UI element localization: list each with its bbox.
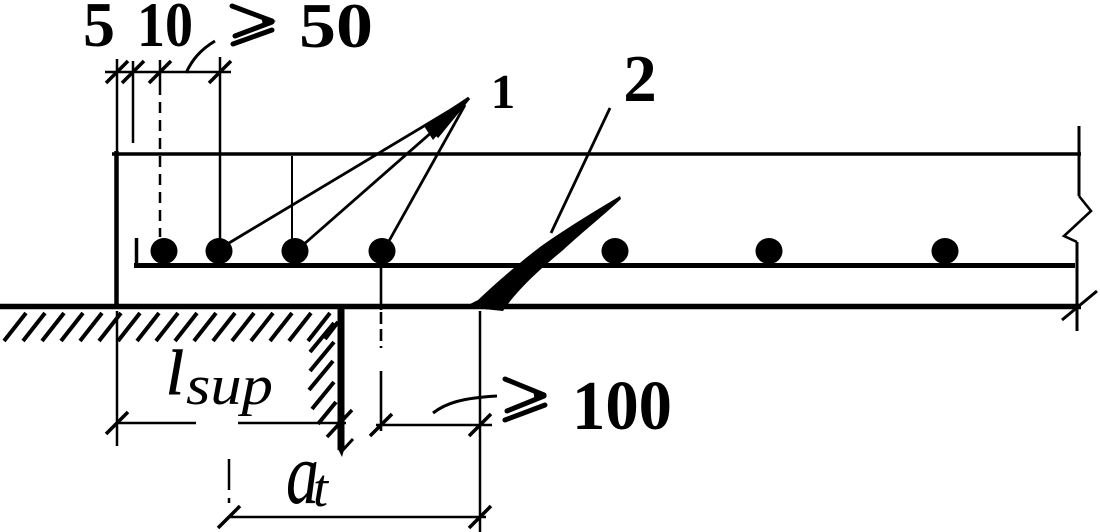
rebar dot 1 xyxy=(151,238,178,264)
rebar dot 2 xyxy=(206,238,233,264)
tick gte100 right xyxy=(469,414,491,436)
rebar dot 7 xyxy=(932,238,959,264)
support centerline dash xyxy=(228,459,231,490)
svg-text:5: 5 xyxy=(83,0,115,60)
slab right edge upper xyxy=(1078,126,1081,196)
leader hook to gte50 xyxy=(186,41,215,73)
gte symbol top xyxy=(232,6,276,44)
slab right edge lower xyxy=(1076,242,1079,331)
leader 1 to dot 4 xyxy=(389,105,465,241)
rebar dot 3 xyxy=(282,238,309,264)
svg-text:100: 100 xyxy=(572,368,672,445)
at dimension line xyxy=(229,516,486,519)
leader 1 to dot 3 xyxy=(303,103,465,245)
top dimension line xyxy=(105,71,231,74)
wall edge (support right face) xyxy=(338,306,345,450)
svg-text:1: 1 xyxy=(491,64,516,119)
support centerline dot xyxy=(228,498,231,503)
svg-text:2: 2 xyxy=(623,42,657,116)
tick at x220 top xyxy=(209,61,231,83)
tick at right xyxy=(469,506,491,528)
bent-up bar (element 2) xyxy=(464,196,621,311)
extension line x292 to dot 3 xyxy=(291,156,293,241)
rebar dot 6 xyxy=(756,238,783,264)
tick at left xyxy=(218,506,240,528)
rebar end hook stub xyxy=(135,238,139,265)
leader hook to gte100 xyxy=(433,396,497,413)
hatching top band xyxy=(4,313,338,341)
leader 1 to dot 2 xyxy=(229,102,464,243)
tick at x133 top xyxy=(122,61,144,83)
lsup extension line left xyxy=(116,311,119,446)
hatching right strip xyxy=(309,323,336,424)
leader 2 line xyxy=(551,108,610,233)
extension x480 from bend point xyxy=(479,311,482,532)
tick lsup right xyxy=(327,410,352,437)
lsup dimension line seg1 xyxy=(117,422,196,425)
tick gte100 left xyxy=(370,414,392,436)
svg-text:10: 10 xyxy=(137,0,193,60)
rebar dot 4 xyxy=(369,238,396,264)
rebar dot 5 xyxy=(602,238,629,264)
tick bottom right corner xyxy=(1062,291,1097,320)
leader 1 arrowhead xyxy=(424,98,469,140)
lsup dimension line seg2 xyxy=(238,422,346,425)
extension line x117 upper xyxy=(116,59,119,152)
extension line x133 xyxy=(132,61,135,143)
extension x381 from dot 4 solid part xyxy=(380,250,383,310)
svg-text:50: 50 xyxy=(299,0,373,61)
extension line x220 to dot 2 xyxy=(219,57,222,239)
break symbol xyxy=(1064,196,1091,242)
extension x381 lower solid part xyxy=(380,371,383,431)
svg-text:l: l xyxy=(166,337,184,408)
tick at x160 top xyxy=(149,61,171,83)
extension x381 dashes below support line xyxy=(380,312,383,348)
svg-text:t: t xyxy=(313,458,330,518)
svg-text:sup: sup xyxy=(186,355,273,417)
gte symbol bottom xyxy=(505,379,547,420)
slab bottom / support top line xyxy=(0,304,1081,310)
extension line x160 solid part xyxy=(159,60,162,84)
slab top line xyxy=(112,152,1081,156)
extension line x160 dashed to dot 1 xyxy=(159,84,162,237)
tick lsup left xyxy=(106,412,128,434)
slab left edge xyxy=(114,151,119,306)
gte100 dimension line xyxy=(376,424,492,427)
tick at x117 top xyxy=(106,61,128,83)
rebar line (bottom reinforcement) xyxy=(134,263,1075,268)
